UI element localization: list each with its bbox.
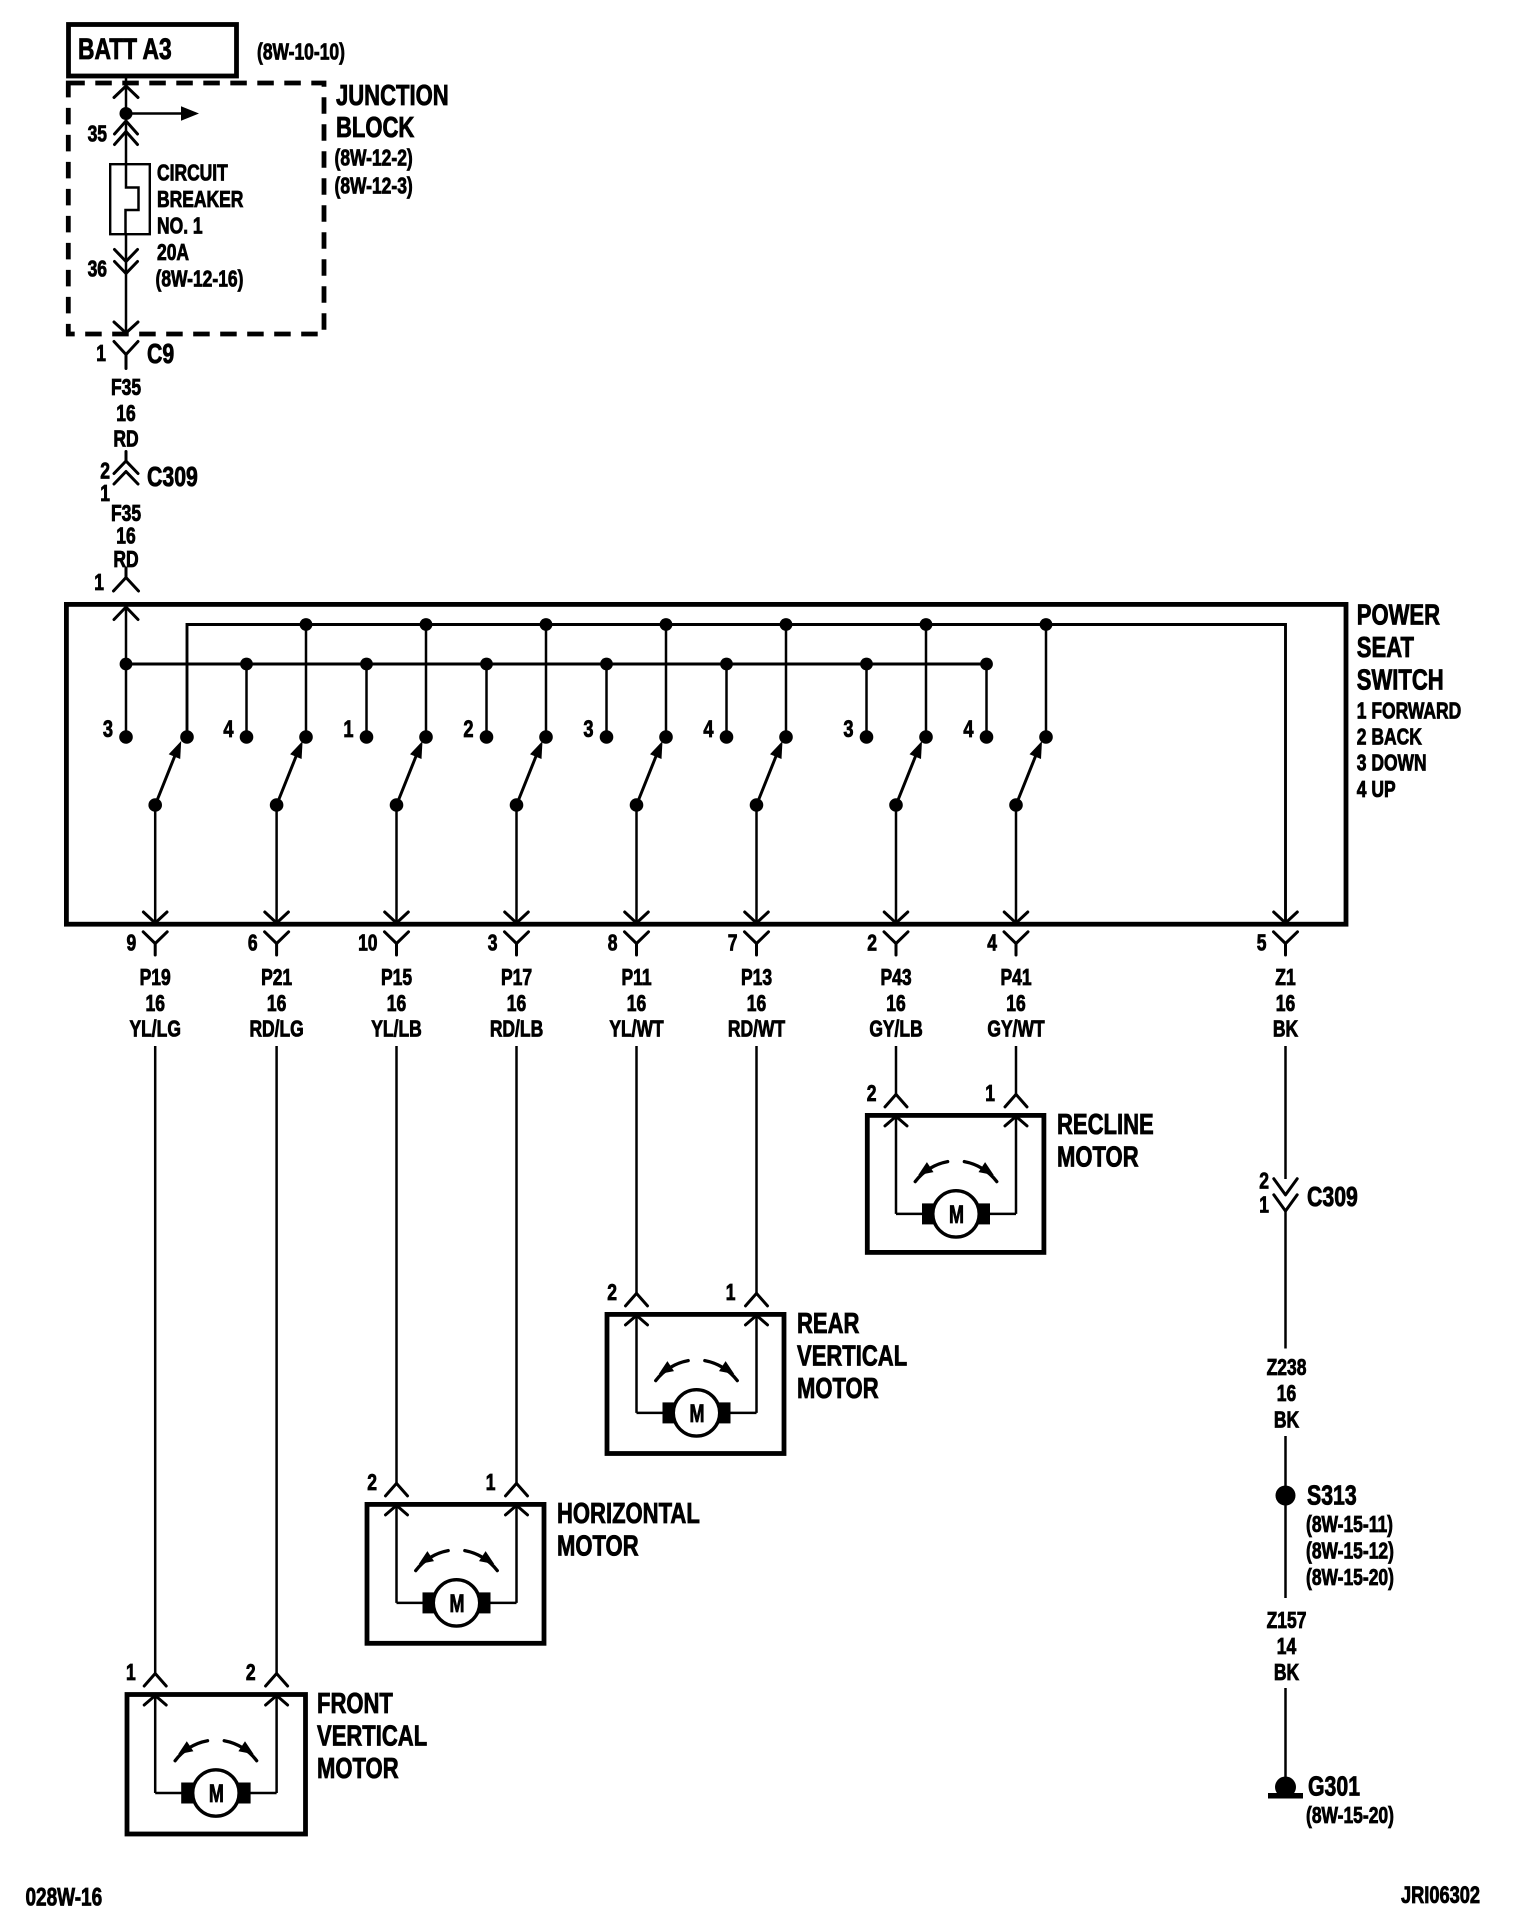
svg-text:VERTICAL: VERTICAL [317, 1721, 427, 1753]
switch contact (ground side) unit 3 [419, 625, 433, 744]
svg-text:RD/WT: RD/WT [728, 1017, 786, 1042]
rear vertical motor box [607, 1308, 907, 1453]
motor M (horizontal) [423, 1580, 491, 1626]
switch connector pin 2 [867, 931, 908, 956]
switch contact (ground side) unit 8 [1039, 625, 1053, 744]
svg-text:P41: P41 [1000, 966, 1031, 991]
wire Z238 16 BK [1267, 1211, 1307, 1486]
switch contact 4 (battery side) unit 6 [703, 664, 733, 744]
svg-text:M: M [209, 1779, 224, 1808]
svg-text:16: 16 [627, 992, 646, 1017]
svg-text:SEAT: SEAT [1357, 632, 1414, 664]
svg-text:16: 16 [387, 992, 406, 1017]
junction block (dashed) [68, 80, 448, 334]
svg-text:REAR: REAR [797, 1308, 860, 1340]
svg-text:M: M [690, 1399, 705, 1428]
horizontal motor internal wiring [386, 1504, 528, 1603]
switch connector pin 8 [608, 931, 649, 956]
svg-text:16: 16 [747, 992, 766, 1017]
svg-text:JUNCTION: JUNCTION [336, 80, 449, 112]
svg-text:3: 3 [103, 716, 113, 743]
svg-text:(8W-15-20): (8W-15-20) [1306, 1804, 1394, 1829]
svg-text:1: 1 [100, 482, 110, 507]
svg-text:1: 1 [96, 342, 106, 367]
wire switch arm unit 7 to output pin [884, 805, 908, 923]
motor M (front) [181, 1770, 250, 1816]
connector pin 35 (junction block) [88, 121, 138, 147]
connector C309 pins 2/1 (upper) [100, 452, 198, 507]
front vertical motor box [127, 1688, 427, 1834]
switch contact 3 (battery side) unit 5 [583, 664, 613, 744]
svg-text:2: 2 [246, 1661, 256, 1686]
svg-text:1: 1 [1259, 1193, 1269, 1218]
svg-text:BK: BK [1274, 1408, 1299, 1433]
power seat switch box [66, 600, 1461, 924]
svg-text:BK: BK [1273, 1017, 1298, 1042]
switch contact (ground side) unit 6 [779, 625, 793, 744]
battery feed box BATT A3 [69, 25, 345, 77]
svg-text:(8W-12-16): (8W-12-16) [156, 267, 244, 292]
svg-text:1 FORWARD: 1 FORWARD [1357, 699, 1461, 724]
switch connector pin 4 [987, 931, 1028, 956]
arrow exiting junction block bottom [114, 322, 138, 333]
svg-text:16: 16 [1006, 992, 1025, 1017]
rotation arrows (front) [175, 1741, 257, 1761]
drawing id JRI06302 [1401, 1882, 1480, 1909]
front vertical motor connector pins [126, 1661, 288, 1686]
svg-text:1: 1 [94, 571, 104, 596]
rear vertical motor connector pins [607, 1281, 767, 1306]
svg-text:3: 3 [583, 716, 593, 743]
motor M (rear) [663, 1390, 731, 1436]
svg-text:(8W-15-20): (8W-15-20) [1306, 1566, 1394, 1591]
svg-text:BK: BK [1274, 1661, 1299, 1686]
svg-text:4: 4 [987, 931, 997, 956]
switch arm unit 1 [148, 741, 181, 812]
svg-text:(8W-12-3): (8W-12-3) [335, 174, 413, 199]
rotation arrows (rear) [656, 1361, 738, 1381]
sheet number 028W-16 [26, 1883, 103, 1911]
switch connector pin 10 [358, 931, 408, 956]
connector pin 36 (junction block) [88, 250, 138, 283]
svg-text:16: 16 [1276, 992, 1295, 1017]
rotation arrows (horizontal) [416, 1551, 498, 1571]
svg-text:1: 1 [343, 716, 353, 743]
ground bus junction nodes [300, 618, 1053, 631]
wire switch arm unit 3 to output pin [385, 805, 409, 923]
svg-text:2 BACK: 2 BACK [1357, 725, 1422, 750]
svg-text:2: 2 [867, 931, 877, 956]
switch arm unit 7 [889, 741, 922, 812]
svg-text:P11: P11 [621, 966, 651, 991]
wire F35 16 RD (lower) [111, 502, 141, 573]
recline motor box [867, 1109, 1153, 1252]
switch connector pin 3 [488, 931, 529, 956]
svg-text:M: M [949, 1200, 964, 1229]
svg-text:16: 16 [145, 992, 164, 1017]
svg-text:16: 16 [886, 992, 905, 1017]
switch contact (ground side) unit 7 [919, 625, 933, 744]
svg-text:C9: C9 [147, 338, 174, 370]
svg-text:MOTOR: MOTOR [1057, 1142, 1139, 1174]
svg-text:GY/LB: GY/LB [869, 1017, 922, 1042]
svg-text:F35: F35 [111, 502, 141, 527]
svg-text:JRI06302: JRI06302 [1401, 1882, 1480, 1909]
wire feed entry into switch [114, 606, 138, 737]
svg-text:2: 2 [100, 459, 110, 484]
svg-text:YL/LG: YL/LG [129, 1017, 180, 1042]
svg-text:YL/LB: YL/LB [371, 1017, 421, 1042]
svg-text:C309: C309 [1307, 1181, 1358, 1213]
svg-text:P13: P13 [741, 966, 772, 991]
switch connector pin 9 [126, 931, 167, 956]
recline motor internal wiring [885, 1115, 1027, 1214]
switch connector pin 6 [248, 931, 289, 956]
svg-text:MOTOR: MOTOR [557, 1531, 639, 1563]
wire P19 16 YL/LG [129, 966, 180, 1674]
svg-text:NO. 1: NO. 1 [157, 214, 203, 239]
ground bus (upper) to pin 5 [187, 625, 1297, 924]
wire Z157 14 BK [1267, 1505, 1307, 1779]
svg-text:16: 16 [116, 402, 135, 427]
switch contact 3 (battery side) unit 1 [103, 716, 133, 744]
ground G301 [1268, 1771, 1394, 1829]
switch contact 4 (battery side) unit 8 [963, 664, 993, 744]
svg-text:35: 35 [88, 122, 107, 147]
wire switch arm unit 4 to output pin [505, 805, 529, 923]
wire P21 16 RD/LG [249, 966, 303, 1674]
switch contact 2 (battery side) unit 4 [463, 664, 493, 744]
switch arm unit 3 [390, 741, 423, 812]
wire P41 16 GY/WT [987, 966, 1045, 1095]
wire P13 16 RD/WT [728, 966, 786, 1294]
svg-text:HORIZONTAL: HORIZONTAL [557, 1498, 700, 1530]
svg-text:4 UP: 4 UP [1357, 778, 1396, 803]
svg-text:S313: S313 [1307, 1480, 1357, 1512]
svg-text:FRONT: FRONT [317, 1688, 393, 1720]
horizontal motor connector pins [367, 1471, 527, 1496]
battery bus junction nodes [120, 658, 993, 671]
switch connector pin 1 (feed into power seat switch) [94, 568, 138, 596]
wire F35 16 RD (upper) [111, 376, 141, 452]
switch arm unit 4 [510, 741, 543, 812]
svg-text:36: 36 [88, 257, 107, 282]
svg-text:16: 16 [507, 992, 526, 1017]
svg-text:G301: G301 [1308, 1771, 1360, 1803]
svg-text:MOTOR: MOTOR [797, 1373, 879, 1405]
switch contact (ground side) unit 2 [299, 625, 313, 744]
svg-text:(8W-10-10): (8W-10-10) [257, 40, 345, 65]
svg-text:P17: P17 [501, 966, 532, 991]
svg-text:20A: 20A [157, 241, 189, 266]
switch contact (ground side) unit 1 [180, 730, 194, 744]
svg-text:RECLINE: RECLINE [1057, 1109, 1154, 1141]
svg-text:RD/LG: RD/LG [249, 1017, 303, 1042]
wire BATT A3 to junction block [114, 76, 138, 115]
switch arm unit 2 [270, 741, 303, 812]
svg-text:P43: P43 [880, 966, 911, 991]
svg-text:Z238: Z238 [1267, 1356, 1307, 1381]
wire switch arm unit 8 to output pin [1004, 805, 1028, 923]
circuit breaker no. 1 20A [110, 161, 243, 292]
svg-text:1: 1 [126, 1661, 136, 1686]
svg-text:10: 10 [358, 931, 377, 956]
switch contact (ground side) unit 4 [539, 625, 553, 744]
svg-text:16: 16 [116, 524, 135, 549]
svg-text:1: 1 [726, 1281, 736, 1306]
connector C9 pin 1 [96, 338, 174, 370]
svg-text:CIRCUIT: CIRCUIT [157, 161, 228, 186]
svg-text:16: 16 [267, 992, 286, 1017]
splice S313 [1276, 1480, 1394, 1591]
feed arrow to other circuits [126, 106, 199, 120]
wire switch arm unit 5 to output pin [625, 805, 649, 923]
svg-text:RD/LB: RD/LB [490, 1017, 543, 1042]
svg-text:6: 6 [248, 931, 258, 956]
motor M (recline) [922, 1191, 990, 1237]
svg-text:14: 14 [1277, 1635, 1297, 1660]
battery bus (lower) [126, 663, 987, 666]
switch arm unit 8 [1009, 741, 1042, 812]
svg-text:4: 4 [223, 716, 233, 743]
wire switch arm unit 6 to output pin [745, 805, 769, 923]
svg-text:SWITCH: SWITCH [1357, 665, 1444, 697]
switch arm unit 5 [630, 741, 663, 812]
wire P43 16 GY/LB [869, 966, 922, 1095]
wire P17 16 RD/LB [490, 966, 543, 1484]
svg-text:P21: P21 [261, 966, 292, 991]
svg-text:2: 2 [867, 1082, 877, 1107]
svg-text:3: 3 [843, 716, 853, 743]
svg-text:F35: F35 [111, 376, 141, 401]
svg-text:2: 2 [367, 1471, 377, 1496]
svg-text:2: 2 [607, 1281, 617, 1306]
node battery feed junction [120, 107, 133, 120]
svg-text:MOTOR: MOTOR [317, 1753, 399, 1785]
svg-text:1: 1 [486, 1471, 496, 1496]
svg-text:4: 4 [963, 716, 973, 743]
wire switch arm unit 2 to output pin [265, 805, 289, 923]
svg-text:16: 16 [1277, 1382, 1296, 1407]
svg-text:P15: P15 [381, 966, 412, 991]
svg-text:7: 7 [728, 931, 738, 956]
svg-text:VERTICAL: VERTICAL [797, 1341, 907, 1373]
svg-text:BATT A3: BATT A3 [78, 32, 172, 66]
switch connector pin 5 [1257, 931, 1298, 956]
svg-text:8: 8 [608, 931, 618, 956]
svg-text:Z157: Z157 [1267, 1609, 1307, 1634]
svg-text:(8W-12-2): (8W-12-2) [335, 146, 413, 171]
switch contact 3 (battery side) unit 7 [843, 664, 873, 744]
svg-text:3: 3 [488, 931, 498, 956]
svg-text:RD: RD [113, 427, 138, 452]
wire circuit breaker to pin 36 [125, 234, 128, 333]
connector C309 pins 2/1 (lower) [1259, 1169, 1358, 1218]
svg-text:028W-16: 028W-16 [26, 1883, 103, 1911]
svg-text:(8W-15-11): (8W-15-11) [1306, 1513, 1393, 1538]
wire P11 16 YL/WT [609, 966, 664, 1294]
switch contact 1 (battery side) unit 3 [343, 664, 373, 744]
svg-text:4: 4 [703, 716, 713, 743]
svg-text:(8W-15-12): (8W-15-12) [1306, 1539, 1394, 1564]
svg-text:2: 2 [463, 716, 473, 743]
switch arm unit 6 [750, 741, 783, 812]
svg-text:9: 9 [126, 931, 136, 956]
svg-text:GY/WT: GY/WT [987, 1017, 1045, 1042]
wire P15 16 YL/LB [371, 966, 421, 1484]
wire switch arm unit 1 to output pin [143, 805, 167, 923]
svg-text:2: 2 [1259, 1169, 1269, 1194]
switch contact (ground side) unit 5 [659, 625, 673, 744]
svg-text:BREAKER: BREAKER [157, 188, 244, 213]
wire pin35 to circuit breaker [125, 120, 128, 164]
front vertical motor internal wiring [144, 1695, 287, 1794]
switch contact 4 (battery side) unit 2 [223, 664, 253, 744]
svg-text:3 DOWN: 3 DOWN [1357, 751, 1427, 776]
svg-text:1: 1 [985, 1082, 995, 1107]
svg-text:POWER: POWER [1357, 600, 1441, 632]
wire Z1 16 BK [1273, 966, 1298, 1179]
svg-text:BLOCK: BLOCK [336, 112, 415, 144]
svg-text:5: 5 [1257, 931, 1267, 956]
svg-text:Z1: Z1 [1275, 966, 1295, 991]
recline motor connector pins [867, 1082, 1027, 1107]
svg-text:C309: C309 [147, 461, 198, 493]
rear vertical motor internal wiring [626, 1314, 768, 1413]
svg-text:YL/WT: YL/WT [609, 1017, 664, 1042]
horizontal motor box [367, 1498, 700, 1643]
svg-text:M: M [450, 1589, 465, 1618]
svg-text:P19: P19 [140, 966, 171, 991]
rotation arrows (recline) [915, 1162, 997, 1182]
switch connector pin 7 [728, 931, 769, 956]
